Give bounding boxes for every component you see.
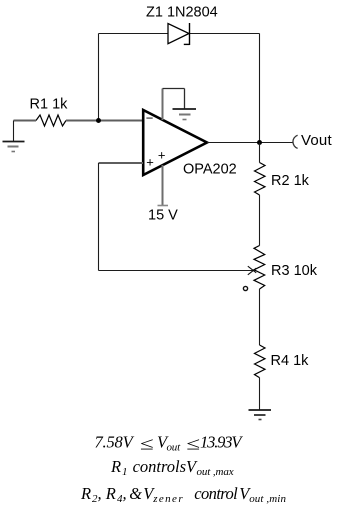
resistor R1 [36,115,66,126]
ground bottom [249,410,272,420]
svg-text:−: − [146,111,154,126]
svg-text:&: & [129,484,142,503]
wiper arrowhead [248,266,256,273]
svg-text:,: , [98,484,102,503]
formula line 1 [95,433,244,454]
svg-text:R2 1k: R2 1k [271,173,310,189]
svg-text:1: 1 [122,466,128,478]
node junction at inverting input [96,118,101,123]
wire left ground stem [13,121,15,142]
formula line 2 [110,457,234,478]
potentiometer R3 [254,246,265,290]
wire R1 left stub [14,120,37,122]
svg-text:control: control [194,484,238,503]
svg-text:R1 1k: R1 1k [30,97,69,113]
wire wiper horizontal [99,270,253,272]
wire right vertical of zener loop [259,34,261,143]
svg-text:7.58V: 7.58V [95,433,135,452]
svg-text:≤: ≤ [140,433,154,454]
resistor R2 [255,163,266,196]
svg-text:R: R [110,457,121,476]
svg-text:OPA202: OPA202 [183,162,237,178]
svg-text:+: + [158,148,166,163]
svg-text:out ,min: out ,min [249,493,286,505]
wire R3 to R4 [259,289,261,345]
svg-text:R: R [80,484,91,503]
svg-text:controls: controls [133,457,186,476]
formula line 3 [80,484,286,505]
svg-text:R3 10k: R3 10k [271,263,318,279]
svg-text:Z1 1N2804: Z1 1N2804 [146,5,218,21]
wire op-amp output [207,142,293,144]
wire + input to feedback [99,162,144,164]
resistor R4 [255,345,266,378]
wire op-amp V- supply to ground bracket [163,89,185,121]
terminal 15V tick [158,205,169,207]
svg-text:Vout: Vout [301,132,332,149]
pot pin marker circle [243,286,247,290]
svg-text:out: out [167,442,182,454]
svg-text:+: + [146,155,154,170]
wire top loop right horizontal [190,33,260,35]
svg-text:R: R [105,484,116,503]
wire op-amp V+ supply down [162,165,164,205]
wire top loop left horizontal [99,33,169,35]
wire R4 to ground [259,378,261,410]
zener diode Z1 [168,23,190,45]
wire R2 to R3 [259,195,261,246]
svg-text:13.93V: 13.93V [200,433,243,452]
svg-text:zener: zener [152,493,184,505]
wire R2 top [259,143,261,163]
wire left vertical of zener loop [98,34,100,121]
wire feedback vertical [98,163,100,271]
svg-text:,: , [123,484,127,503]
svg-text:15 V: 15 V [148,208,178,224]
wire R1 right to op-amp [66,120,143,122]
node output junction [257,140,262,145]
op-amp U1 OPA202 [143,110,207,175]
svg-text:out ,max: out ,max [197,466,234,478]
svg-text:≤: ≤ [186,433,200,454]
svg-text:R4 1k: R4 1k [271,353,310,369]
ground at op-amp supply [173,109,197,120]
terminal Vout open circle [293,135,298,148]
ground left [3,142,25,152]
